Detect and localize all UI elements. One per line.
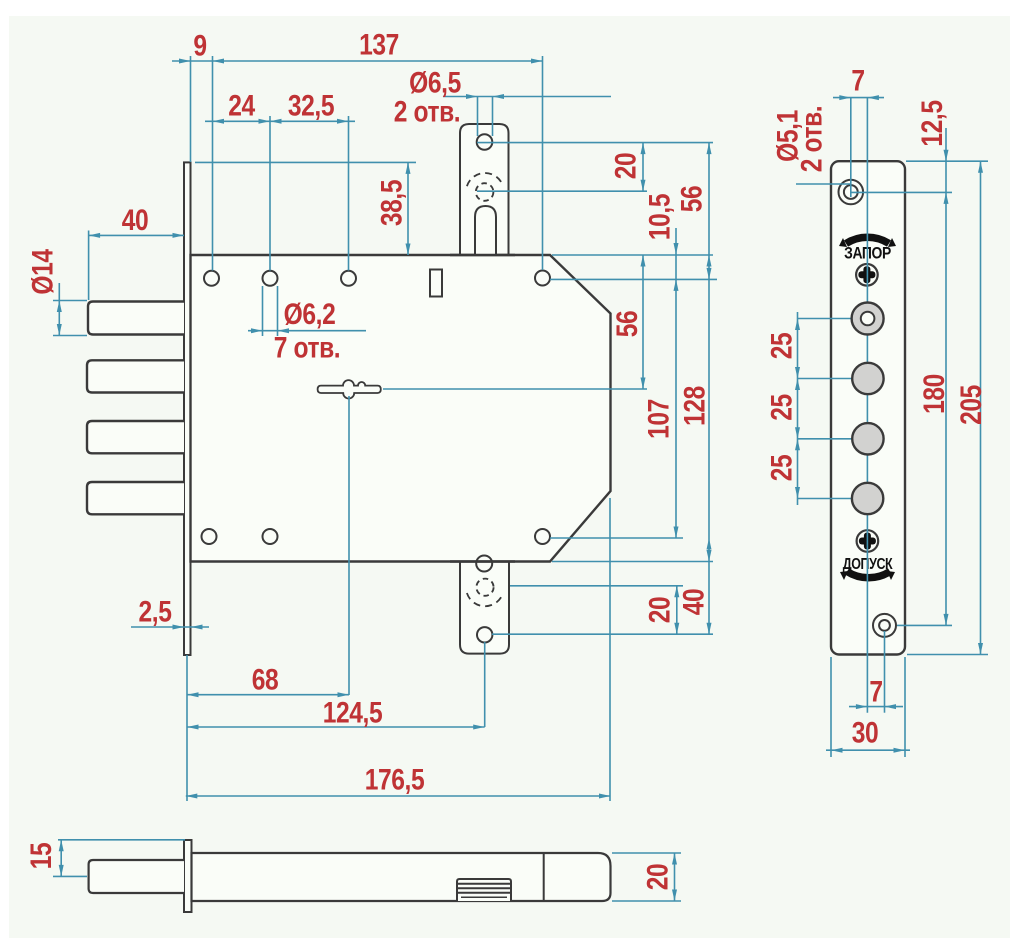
extension of body top edge right <box>552 254 713 256</box>
body screw holes, top row (7 holes d6.2) <box>204 271 219 286</box>
right view: bottom phillips screw <box>857 530 879 552</box>
deadbolt 3 <box>87 421 184 453</box>
dim 9 (body edge to first hole) <box>172 60 213 62</box>
right view: top countersunk screw hole d5.1 <box>839 180 864 205</box>
extension of body bottom edge right <box>552 561 713 563</box>
svg-text:7: 7 <box>869 674 882 708</box>
dim 180 (screw hole to screw hole) <box>944 614 949 626</box>
top tab: screw hole <box>477 134 493 150</box>
dim 128 (body height) <box>708 279 710 634</box>
svg-text:128: 128 <box>677 386 711 426</box>
svg-text:180: 180 <box>917 374 951 414</box>
top screw hole extension right <box>851 191 952 193</box>
plate top edge extension right <box>906 160 988 162</box>
extension hole3 up <box>348 116 350 271</box>
extension line corner hole up <box>542 56 544 270</box>
lock faceplate (front view, vertical strip) <box>184 162 191 655</box>
side view: end cap separation line <box>543 853 545 901</box>
right view: bottom countersunk screw hole d5.1 <box>873 614 896 637</box>
svg-text:Ø14: Ø14 <box>25 248 59 294</box>
dim 137 (first hole to corner hole) <box>213 60 543 62</box>
bottom mounting tab of lock body <box>460 560 509 654</box>
svg-text:12,5: 12,5 <box>915 100 949 146</box>
extension from bottom corner hole right <box>550 537 683 539</box>
bottom tab: hidden cylinder circle (dashed arc) <box>467 593 503 606</box>
dim 68 (faceplate to keyhole) <box>187 694 349 696</box>
svg-text:25: 25 <box>764 333 798 360</box>
top mounting tab of lock body <box>460 124 509 256</box>
dim 25 x3 (bolt hole spacing) <box>797 312 799 505</box>
dim 2,5 (faceplate thickness) <box>131 626 209 628</box>
side view: bolt axis tick <box>53 875 87 877</box>
svg-text:30: 30 <box>852 715 879 749</box>
deadbolt 2 <box>87 360 184 392</box>
right view: bolt hole 4 <box>852 483 883 514</box>
dim 56 (body top to keyhole axis) <box>642 255 644 389</box>
dim 32,5 <box>270 120 355 122</box>
svg-text:56: 56 <box>610 311 644 338</box>
svg-text:124,5: 124,5 <box>323 695 383 729</box>
extension line from top tab hole right <box>477 142 713 144</box>
svg-text:25: 25 <box>764 394 798 421</box>
side view: faceplate top extension <box>58 839 185 841</box>
extension from bottom tab screw hole right <box>492 633 713 635</box>
svg-text:107: 107 <box>641 399 675 439</box>
right view: bolt hole 1 with inner ring <box>852 303 884 335</box>
dim 124,5 (faceplate to tab hole) <box>187 726 485 728</box>
svg-text:32,5: 32,5 <box>288 88 334 122</box>
svg-text:15: 15 <box>24 843 58 870</box>
svg-text:20: 20 <box>642 597 676 624</box>
side view: bar bottom extension right <box>612 900 681 902</box>
dim 20 (tab hole to hidden hole) <box>642 143 644 192</box>
body screw holes, bottom row <box>202 529 217 544</box>
side view: bar top extension right <box>612 852 681 854</box>
dim 10,5 (body top to corner hole) with leader <box>675 228 677 279</box>
right view: bolt hole 2 <box>852 363 883 394</box>
extension from bottom tab hidden hole right <box>510 585 683 587</box>
svg-text:Ø6,2: Ø6,2 <box>284 297 336 331</box>
plate bottom edge extension right <box>907 654 988 656</box>
svg-text:9: 9 <box>193 28 206 62</box>
dim 24 <box>205 120 270 122</box>
bottom tab: lower screw hole <box>477 627 492 642</box>
dim D6,2 7 holes <box>262 286 264 336</box>
body right edge extension down <box>609 498 611 801</box>
body edge segments redrawn over tab slots <box>450 254 515 256</box>
right view: face plate outline <box>831 161 905 654</box>
right view: upper phillips screw <box>856 264 878 286</box>
dim 30 (plate width) <box>830 657 832 757</box>
dim 15 (faceplate top to bolt axis) <box>60 840 62 877</box>
svg-text:40: 40 <box>122 203 149 237</box>
svg-text:2 отв.: 2 отв. <box>794 106 828 172</box>
svg-text:2,5: 2,5 <box>139 594 172 628</box>
extension line hole1 up <box>212 56 214 271</box>
dim 205 (overall plate length) <box>980 161 982 654</box>
bottom tab screw hole extension down <box>484 642 486 727</box>
top tab: hidden cylinder circle (dashed arc) <box>467 173 503 186</box>
side view: lock body bar <box>192 853 611 901</box>
keyhole for lever key (center of body) <box>318 380 381 398</box>
svg-text:24: 24 <box>228 88 256 122</box>
top tab: vertical slot <box>475 206 496 256</box>
top tab: small hidden hole (dashed circle) <box>476 183 494 201</box>
svg-text:20: 20 <box>608 153 642 180</box>
bottom tab: small hidden hole (dashed circle) <box>476 579 493 596</box>
svg-text:7 отв.: 7 отв. <box>274 330 340 364</box>
svg-text:20: 20 <box>640 864 674 891</box>
dim 107 (corner hole to corner hole) <box>675 279 677 538</box>
dim 176,5 (overall depth) <box>186 795 611 797</box>
dim 40 lower (corner hole to tab screw hole) <box>707 538 712 550</box>
dim 56 upper (tab hole to corner hole) <box>708 143 710 280</box>
svg-text:38,5: 38,5 <box>374 180 408 226</box>
svg-text:205: 205 <box>954 385 988 425</box>
bottom tab: upper hole crossing body edge <box>476 556 492 572</box>
dim 20 (side view bar height) <box>674 853 676 901</box>
svg-text:7: 7 <box>851 63 864 97</box>
plate centerline down through all holes <box>866 98 868 713</box>
side view: deadbolt <box>89 860 184 893</box>
svg-text:25: 25 <box>764 455 798 482</box>
dim D14 (bolt diameter) <box>53 300 87 302</box>
side view: ribbed latch detail <box>457 879 511 901</box>
top screw hole extension up <box>850 98 852 197</box>
svg-text:10,5: 10,5 <box>642 194 676 240</box>
dim D6,5 2 holes (top tab screw hole) <box>477 97 479 137</box>
bottom screw hole extension right <box>897 624 952 626</box>
extension line from top tab hidden hole right <box>477 190 647 192</box>
dim 12,5 (plate top to screw hole) <box>945 128 947 625</box>
right view: bolt hole 3 <box>852 423 883 454</box>
svg-text:176,5: 176,5 <box>365 762 425 796</box>
side view: faceplate cross-section <box>184 840 192 912</box>
dim 40 (bolt length) <box>89 234 184 236</box>
faceplate left edge extension down <box>186 655 188 801</box>
svg-text:56: 56 <box>674 186 708 213</box>
svg-text:68: 68 <box>252 662 279 696</box>
dim 20 lower (hidden hole to screw hole) <box>676 586 678 634</box>
extension from top corner hole right <box>550 278 717 280</box>
dim 7 bottom (bottom screw hole offset) <box>884 631 886 713</box>
svg-text:2 отв.: 2 отв. <box>394 94 460 128</box>
extension hole2 up <box>269 116 271 271</box>
small rectangular slot near top of body <box>430 270 442 297</box>
svg-text:40: 40 <box>676 589 710 616</box>
keyhole axis extension right <box>383 388 647 390</box>
keyhole axis extension down <box>348 396 350 695</box>
lock body (front view) with chamfered right corners <box>191 255 611 562</box>
svg-text:137: 137 <box>359 27 399 61</box>
right view: upper brand logo emblem <box>846 237 889 243</box>
deadbolt 1 (top) <box>88 302 184 335</box>
dim 7 top (screw hole offset) <box>833 97 884 99</box>
dim 38,5 (faceplate top to body top) <box>195 161 416 163</box>
deadbolt 4 (bottom) <box>87 482 184 514</box>
extension line body left edge up <box>190 56 192 162</box>
